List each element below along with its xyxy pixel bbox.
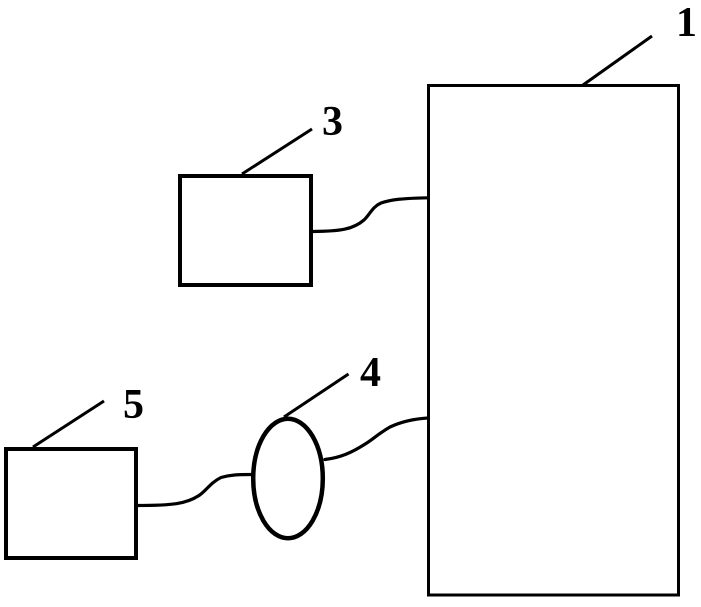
wire block 3 to block 1 <box>313 198 428 232</box>
leader line to label 1 <box>583 36 652 85</box>
leader line to label 3 <box>242 129 312 174</box>
ellipse 4 <box>253 419 323 538</box>
block 5 <box>6 449 136 558</box>
block 1 (main unit) <box>429 86 679 596</box>
svg-text:5: 5 <box>123 382 144 428</box>
svg-text:1: 1 <box>676 0 697 46</box>
leader line to label 4 <box>284 374 349 417</box>
svg-text:4: 4 <box>360 350 381 396</box>
block 3 <box>180 176 311 285</box>
wire ellipse 4 to block 1 <box>325 418 428 460</box>
wire block 5 to ellipse 4 <box>137 475 252 506</box>
svg-text:3: 3 <box>322 99 343 145</box>
leader line to label 5 <box>33 401 104 447</box>
